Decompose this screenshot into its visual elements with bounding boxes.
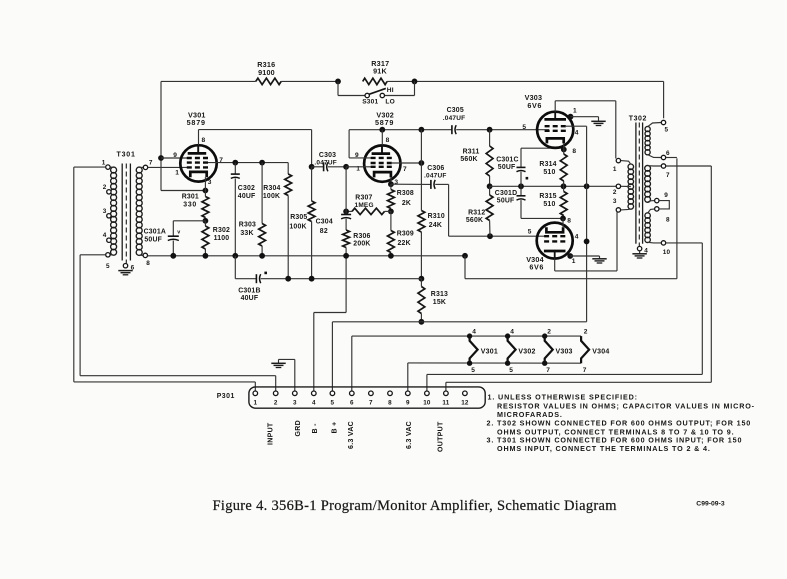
svg-text:8: 8 bbox=[567, 218, 571, 225]
svg-text:2K: 2K bbox=[402, 200, 411, 207]
wire: V301 cathode tie (pins 9,3) to feedback rail bbox=[158, 81, 208, 193]
resistor R315 bbox=[539, 186, 571, 224]
svg-text:R308: R308 bbox=[397, 190, 414, 197]
notes text bbox=[487, 393, 755, 453]
svg-text:1: 1 bbox=[102, 159, 106, 166]
wire: V301 plate rail (pin 8) to C303 bbox=[199, 130, 312, 167]
svg-text:15K: 15K bbox=[433, 299, 446, 306]
svg-text:9: 9 bbox=[664, 192, 668, 199]
svg-text:6V6: 6V6 bbox=[529, 263, 544, 272]
svg-text:5: 5 bbox=[106, 263, 110, 270]
svg-text:1. UNLESS OTHERWISE SPECIFIED:: 1. UNLESS OTHERWISE SPECIFIED: bbox=[488, 393, 638, 402]
svg-text:C305: C305 bbox=[447, 107, 464, 114]
svg-text:2: 2 bbox=[103, 184, 107, 191]
svg-text:7: 7 bbox=[369, 400, 373, 407]
svg-text:3: 3 bbox=[293, 400, 297, 407]
svg-text:1: 1 bbox=[253, 400, 257, 407]
svg-text:HI: HI bbox=[387, 87, 394, 94]
capacitor C303 bbox=[309, 152, 349, 171]
svg-text:R302: R302 bbox=[213, 227, 230, 234]
svg-text:R307: R307 bbox=[355, 195, 372, 202]
wire: T301-7 to V301 grid bbox=[148, 166, 187, 168]
svg-text:1MEG: 1MEG bbox=[355, 202, 374, 209]
resistor R309 bbox=[388, 211, 414, 255]
resistor R311 bbox=[460, 130, 493, 190]
svg-text:91K: 91K bbox=[373, 67, 387, 76]
connector P301 bbox=[217, 387, 486, 408]
transformer T302 bbox=[613, 115, 671, 256]
wire: V301 screen rail (pin 7) bbox=[208, 160, 288, 166]
svg-text:3: 3 bbox=[208, 179, 212, 186]
svg-text:C302: C302 bbox=[238, 185, 255, 192]
svg-text:5: 5 bbox=[331, 400, 335, 407]
svg-text:R306: R306 bbox=[353, 233, 370, 240]
wire: output from T302-10 to P301 pin 10 bbox=[427, 243, 702, 391]
svg-text:5: 5 bbox=[471, 367, 475, 374]
resistor R302 bbox=[202, 221, 230, 256]
svg-text:B -: B - bbox=[312, 423, 319, 434]
svg-text:4: 4 bbox=[575, 130, 579, 137]
svg-text:RESISTOR VALUES IN OHMS; CAPAC: RESISTOR VALUES IN OHMS; CAPACITOR VALUE… bbox=[497, 401, 755, 410]
resistor R313 bbox=[418, 276, 448, 325]
resistor R307 bbox=[343, 195, 391, 215]
resistor R312 bbox=[466, 186, 493, 236]
svg-text:9100: 9100 bbox=[258, 68, 275, 77]
svg-text:40UF: 40UF bbox=[241, 295, 259, 302]
heater filament V303 bbox=[542, 328, 573, 374]
wire: heater top rail from P301 pin 6 bbox=[352, 336, 581, 391]
tube V301 (5879) bbox=[173, 111, 223, 191]
resistor R317 bbox=[363, 59, 390, 85]
drawing number C99-09-3 bbox=[696, 501, 725, 508]
svg-text:8: 8 bbox=[572, 148, 576, 155]
resistor R301 bbox=[182, 191, 209, 224]
capacitor C301A bbox=[144, 221, 206, 256]
svg-text:4: 4 bbox=[575, 234, 579, 241]
svg-text:40UF: 40UF bbox=[238, 193, 256, 200]
svg-text:R313: R313 bbox=[431, 291, 448, 298]
wire: V303 pin 1 to ground bbox=[568, 114, 599, 122]
svg-text:82: 82 bbox=[320, 228, 328, 235]
svg-text:8: 8 bbox=[666, 217, 670, 224]
wire: V303 plate to T302 terminal 1 bbox=[555, 101, 616, 159]
svg-text:1: 1 bbox=[613, 166, 617, 173]
svg-text:7: 7 bbox=[583, 367, 587, 374]
resistor R308 bbox=[388, 181, 414, 214]
svg-text:4: 4 bbox=[510, 328, 514, 335]
svg-text:v: v bbox=[177, 230, 180, 236]
svg-text:2: 2 bbox=[584, 328, 588, 335]
svg-text:V304: V304 bbox=[592, 349, 609, 356]
svg-text:T301: T301 bbox=[117, 152, 136, 159]
resistor R306 bbox=[343, 230, 371, 256]
svg-text:C301B: C301B bbox=[238, 287, 260, 294]
capacitor C305 bbox=[443, 107, 549, 134]
svg-text:R312: R312 bbox=[468, 210, 485, 217]
svg-text:8: 8 bbox=[388, 400, 392, 407]
svg-text:7: 7 bbox=[403, 166, 407, 173]
svg-text:6.3 VAC: 6.3 VAC bbox=[348, 421, 355, 449]
svg-text:3: 3 bbox=[103, 208, 107, 215]
svg-text:5879: 5879 bbox=[375, 118, 394, 127]
figure caption bbox=[213, 498, 618, 514]
ground at P301 pin 3 bbox=[271, 363, 285, 367]
resistor R316 bbox=[256, 60, 281, 85]
capacitor C301D bbox=[495, 186, 563, 218]
capacitor C304 bbox=[316, 167, 352, 235]
svg-text:R309: R309 bbox=[397, 230, 414, 237]
svg-text:1100: 1100 bbox=[214, 235, 230, 242]
svg-text:3: 3 bbox=[613, 198, 617, 205]
svg-text:V302: V302 bbox=[518, 349, 535, 356]
svg-text:C303: C303 bbox=[319, 152, 336, 159]
connector pin function labels bbox=[267, 420, 444, 452]
svg-text:4: 4 bbox=[472, 328, 476, 335]
capacitor C302 bbox=[231, 163, 256, 256]
transformer T301 bbox=[102, 152, 153, 272]
svg-text:6: 6 bbox=[666, 150, 670, 157]
heater filament V301 bbox=[467, 328, 498, 374]
svg-text:12: 12 bbox=[461, 400, 469, 407]
svg-text:10: 10 bbox=[663, 249, 671, 256]
wire: feedback line from cathode rail to T302 terminal 6 bbox=[465, 158, 677, 279]
svg-text:1: 1 bbox=[572, 258, 576, 265]
wire: B+ line from P301 pin 5 bbox=[332, 322, 586, 391]
ground at V304 pin 1 bbox=[592, 259, 606, 263]
svg-text:1: 1 bbox=[175, 170, 179, 177]
wire: output from T302-7 to P301 pin 11 bbox=[446, 166, 711, 391]
svg-text:2: 2 bbox=[613, 189, 617, 196]
svg-text:33K: 33K bbox=[240, 230, 253, 237]
svg-text:R303: R303 bbox=[239, 222, 256, 229]
svg-text:8: 8 bbox=[202, 137, 206, 144]
ground at V303 pin 1 bbox=[591, 121, 605, 125]
wire: screen line V303 pin4 / V304 pin4 to B+ bbox=[566, 126, 589, 322]
svg-text:50UF: 50UF bbox=[497, 197, 515, 204]
svg-text:5: 5 bbox=[665, 127, 669, 134]
ground at T302 terminal 4 bbox=[632, 251, 646, 258]
svg-text:6: 6 bbox=[350, 400, 354, 407]
svg-text:6.3 VAC: 6.3 VAC bbox=[406, 421, 413, 449]
wire: B- line from P301 pin 4 to cathode rail bbox=[314, 256, 346, 391]
heater filament V304 bbox=[581, 328, 609, 374]
svg-text:560K: 560K bbox=[460, 156, 477, 163]
svg-text:200K: 200K bbox=[353, 240, 370, 247]
svg-text:330: 330 bbox=[183, 201, 197, 208]
svg-text:7: 7 bbox=[149, 160, 153, 167]
svg-text:R301: R301 bbox=[182, 193, 199, 200]
svg-text:R314: R314 bbox=[539, 161, 556, 168]
svg-text:V301: V301 bbox=[481, 349, 498, 356]
resistor R303 bbox=[239, 163, 266, 256]
svg-text:2: 2 bbox=[547, 328, 551, 335]
svg-text:7: 7 bbox=[666, 172, 670, 179]
svg-text:2: 2 bbox=[274, 400, 278, 407]
svg-text:R305: R305 bbox=[290, 214, 307, 221]
wire: V304 plate to T302 terminal 3 bbox=[555, 212, 617, 271]
capacitor C301C bbox=[496, 148, 564, 186]
svg-text:P301: P301 bbox=[217, 393, 235, 400]
svg-text:OUTPUT: OUTPUT bbox=[437, 421, 444, 452]
svg-text:C301A: C301A bbox=[144, 229, 166, 236]
svg-text:24K: 24K bbox=[429, 222, 442, 229]
svg-text:R311: R311 bbox=[463, 148, 480, 155]
tube V302 (5879) bbox=[355, 111, 407, 187]
svg-text:C99-09-3: C99-09-3 bbox=[696, 501, 725, 508]
svg-text:B +: B + bbox=[332, 422, 339, 434]
wire: P301 pin 3 to chassis ground bbox=[279, 359, 295, 391]
wire: top feedback rail bbox=[161, 79, 664, 119]
svg-text:5879: 5879 bbox=[187, 118, 206, 127]
resistor R304 bbox=[263, 163, 292, 279]
svg-text:5: 5 bbox=[509, 367, 513, 374]
svg-text:5: 5 bbox=[522, 124, 526, 131]
wire: input from T301-5 to P301 pin 2 bbox=[80, 255, 276, 391]
switch S301 bbox=[338, 81, 415, 105]
svg-text:22K: 22K bbox=[398, 240, 411, 247]
svg-text:9: 9 bbox=[173, 152, 177, 159]
svg-text:8: 8 bbox=[146, 260, 150, 267]
heater filament V302 bbox=[505, 328, 536, 374]
svg-text:.047UF: .047UF bbox=[443, 115, 466, 122]
svg-text:C304: C304 bbox=[316, 219, 333, 226]
svg-text:1: 1 bbox=[573, 108, 577, 115]
svg-text:3: 3 bbox=[394, 179, 398, 186]
wire: input from T301-1 to P301 pin 1 bbox=[74, 167, 256, 391]
capacitor C301B bbox=[235, 256, 421, 302]
svg-text:50UF: 50UF bbox=[144, 237, 162, 244]
svg-text:100K: 100K bbox=[263, 193, 280, 200]
svg-text:560K: 560K bbox=[466, 217, 483, 224]
svg-text:510: 510 bbox=[543, 169, 555, 176]
svg-text:8: 8 bbox=[386, 137, 390, 144]
svg-text:11: 11 bbox=[442, 400, 449, 407]
svg-text:R310: R310 bbox=[428, 213, 445, 220]
svg-text:10: 10 bbox=[423, 400, 431, 407]
svg-text:4: 4 bbox=[312, 400, 316, 407]
svg-text:7: 7 bbox=[546, 367, 550, 374]
svg-text:510: 510 bbox=[543, 201, 555, 208]
svg-text:C306: C306 bbox=[427, 165, 444, 172]
wire: V304 pin 1 to ground bbox=[567, 253, 599, 259]
svg-text:OHMS INPUT, CONNECT THE TERMI: OHMS INPUT, CONNECT THE TERMINALS TO 2 &… bbox=[497, 444, 711, 453]
ground at T301 terminal 6 bbox=[118, 271, 132, 275]
svg-text:Figure 4. 356B-1 Program/Moni: Figure 4. 356B-1 Program/Monitor Amplifi… bbox=[213, 498, 618, 514]
svg-text:100K: 100K bbox=[289, 223, 306, 230]
svg-text:4: 4 bbox=[103, 232, 107, 239]
svg-text:5: 5 bbox=[528, 229, 532, 236]
svg-text:T302: T302 bbox=[629, 115, 647, 122]
svg-text:V303: V303 bbox=[556, 349, 573, 356]
svg-text:INPUT: INPUT bbox=[267, 422, 274, 445]
svg-text:R304: R304 bbox=[263, 185, 280, 192]
wire: V302 plate rail with pin 9 tie bbox=[346, 127, 452, 211]
svg-text:C301C: C301C bbox=[496, 157, 518, 164]
svg-text:LO: LO bbox=[385, 99, 395, 106]
svg-text:2. T302 SHOWN CONNECTED FOR 60: 2. T302 SHOWN CONNECTED FOR 600 OHMS OUT… bbox=[487, 419, 752, 428]
wire: bias row to T302 terminal 2 bbox=[490, 183, 617, 189]
resistor R310 bbox=[418, 211, 445, 279]
svg-text:S301: S301 bbox=[362, 99, 378, 106]
wire: heater bottom rail from P301 pin 9 bbox=[408, 363, 581, 391]
svg-text:50UF: 50UF bbox=[498, 164, 516, 171]
wire: cathode/common rail bbox=[148, 253, 468, 259]
svg-text:R315: R315 bbox=[539, 193, 556, 200]
svg-text:9: 9 bbox=[406, 400, 410, 407]
svg-text:6V6: 6V6 bbox=[527, 101, 542, 110]
svg-text:C301D: C301D bbox=[495, 190, 517, 197]
tube V303 (6V6) bbox=[522, 93, 578, 150]
resistor R314 bbox=[539, 147, 576, 187]
capacitor C306 bbox=[391, 165, 548, 239]
svg-text:.047UF: .047UF bbox=[314, 160, 337, 167]
svg-text:.047UF: .047UF bbox=[424, 173, 447, 180]
tube V304 (6V6) bbox=[526, 218, 579, 271]
svg-text:GRD: GRD bbox=[295, 420, 302, 436]
resistor R305 bbox=[289, 167, 315, 279]
